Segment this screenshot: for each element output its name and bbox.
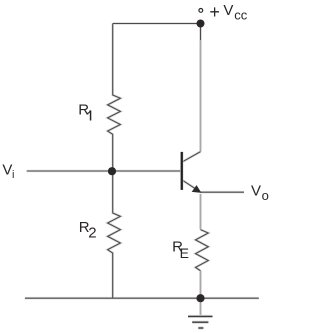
svg-text:V: V — [251, 183, 261, 200]
svg-text:E: E — [180, 245, 189, 261]
svg-text:2: 2 — [88, 225, 96, 242]
svg-text:i: i — [12, 169, 14, 181]
svg-text:R: R — [78, 102, 89, 119]
svg-text:+: + — [209, 2, 220, 22]
svg-text:cc: cc — [234, 7, 248, 22]
svg-text:V: V — [2, 161, 12, 178]
svg-text:V: V — [223, 2, 233, 19]
svg-text:o: o — [262, 188, 269, 203]
